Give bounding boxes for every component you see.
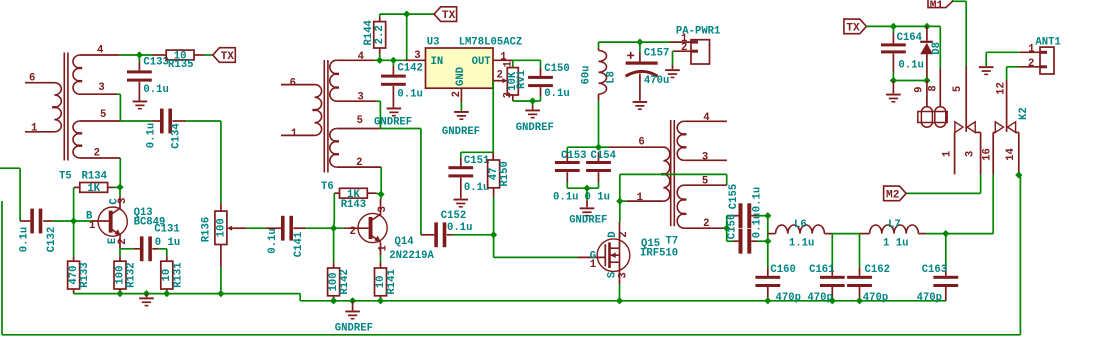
wiper arrow RV1 bbox=[493, 80, 503, 82]
node D8 bottom junction bbox=[923, 77, 930, 84]
flag TX input mid bbox=[434, 7, 457, 22]
potentiometer RV1 bbox=[507, 68, 518, 95]
svg-text:1: 1 bbox=[503, 61, 515, 67]
capacitor C155 bbox=[727, 215, 733, 217]
capacitor C131 bbox=[134, 248, 140, 250]
capacitor C132 bbox=[20, 220, 30, 222]
svg-text:1: 1 bbox=[89, 220, 95, 232]
svg-text:R142: R142 bbox=[339, 269, 351, 294]
svg-text:C134: C134 bbox=[170, 123, 182, 149]
wire T7 pin5 bbox=[684, 184, 727, 186]
svg-text:0.1u: 0.1u bbox=[146, 123, 158, 148]
svg-text:C141: C141 bbox=[293, 232, 305, 257]
svg-text:C142: C142 bbox=[397, 63, 422, 75]
node R142 rail bbox=[330, 297, 337, 304]
resistor R144 bbox=[379, 14, 381, 17]
node base junction R134/R133 bbox=[70, 217, 77, 224]
pin2 ANT1 bbox=[1019, 66, 1040, 68]
wire contact A throw3 to M2 bbox=[980, 174, 982, 193]
svg-text:C132: C132 bbox=[46, 227, 58, 252]
IC U3 LM78L05ACZ bbox=[426, 48, 494, 88]
svg-text:RV1: RV1 bbox=[516, 70, 528, 89]
capacitor C152 bbox=[421, 234, 434, 236]
svg-text:2: 2 bbox=[350, 226, 356, 238]
svg-text:T6: T6 bbox=[321, 181, 334, 193]
svg-text:1K: 1K bbox=[87, 183, 100, 195]
resistor R132 bbox=[119, 249, 121, 257]
wire center tap to pin5 bbox=[619, 174, 621, 201]
svg-text:10: 10 bbox=[161, 269, 173, 282]
svg-text:100: 100 bbox=[328, 272, 340, 291]
svg-text:8: 8 bbox=[927, 85, 939, 91]
svg-text:C133: C133 bbox=[143, 57, 168, 69]
capacitor C162 bbox=[859, 234, 861, 268]
resistor R133 bbox=[73, 221, 75, 256]
node R141 rail bbox=[377, 297, 384, 304]
svg-text:3: 3 bbox=[117, 198, 129, 204]
svg-text:470p: 470p bbox=[917, 292, 942, 304]
node R132 rail bbox=[116, 290, 123, 297]
svg-text:0.1u: 0.1u bbox=[752, 187, 764, 212]
capacitor C142 bbox=[392, 60, 394, 66]
node C160 rail bbox=[764, 297, 771, 304]
wire RV1 bottom to gnd node bbox=[512, 95, 514, 101]
capacitor C141 bbox=[266, 227, 281, 229]
svg-text:0.1u: 0.1u bbox=[143, 84, 168, 96]
capacitor C151 bbox=[460, 152, 462, 158]
node Q15 source rail bbox=[616, 297, 623, 304]
transistor Q14 2N2219A bbox=[380, 194, 382, 199]
svg-text:0.1u: 0.1u bbox=[447, 222, 472, 234]
svg-text:GNDREF: GNDREF bbox=[335, 323, 373, 335]
svg-text:TX: TX bbox=[221, 51, 235, 63]
wire bottom rail A bbox=[74, 293, 301, 295]
svg-text:C155: C155 bbox=[728, 184, 740, 209]
wire T6 pin5 to C152 bbox=[337, 128, 381, 130]
svg-text:60u: 60u bbox=[580, 65, 592, 84]
wire throw14 to bottom rail bbox=[1018, 174, 1020, 176]
node collector junction bbox=[377, 191, 384, 198]
capacitor C157 electrolytic bbox=[639, 42, 641, 52]
svg-text:R141: R141 bbox=[386, 269, 398, 294]
wire T5 pin5 to C134 bbox=[80, 120, 120, 122]
capacitor C161 bbox=[831, 234, 833, 268]
svg-text:1: 1 bbox=[31, 122, 37, 134]
flag TX output top-right bbox=[844, 19, 867, 34]
wire TX to relay coil bbox=[866, 25, 940, 27]
resistor R135 bbox=[152, 54, 166, 56]
svg-text:1: 1 bbox=[377, 245, 389, 251]
connector ANT1 bbox=[1040, 47, 1054, 74]
svg-text:R132: R132 bbox=[126, 262, 138, 287]
ground RV1/C150 GNDREF bbox=[532, 101, 534, 105]
svg-text:R131: R131 bbox=[172, 262, 184, 287]
resistor R150 bbox=[492, 152, 494, 160]
connector PA-PWR1 bbox=[691, 40, 710, 64]
ground C151 bbox=[454, 199, 469, 201]
relay K2 coil bbox=[918, 112, 947, 123]
svg-text:0.1u: 0.1u bbox=[544, 88, 569, 100]
wire TX junction down bbox=[406, 14, 408, 60]
relay contact A bbox=[955, 122, 963, 133]
wire C131 to R131 bbox=[166, 249, 168, 257]
wire Q13 emitter bbox=[119, 236, 121, 249]
capacitor C133 bbox=[138, 55, 140, 62]
wire pin2 node verticals bbox=[726, 216, 728, 242]
svg-text:GNDREF: GNDREF bbox=[569, 214, 607, 226]
wiper arrow R136 bbox=[227, 226, 232, 231]
wire T6 pin4 to U3 bbox=[337, 59, 375, 61]
node D8 junction top bbox=[923, 23, 930, 30]
node C155 junction bbox=[764, 212, 771, 219]
wire T7 pin4 stub bbox=[684, 120, 727, 122]
svg-text:2.2: 2.2 bbox=[374, 25, 386, 44]
svg-text:IN: IN bbox=[431, 56, 444, 68]
ground C133 bbox=[133, 101, 148, 103]
svg-text:ANT1: ANT1 bbox=[1035, 36, 1060, 48]
ground PA-PWR1 pin2 bbox=[665, 69, 680, 71]
svg-text:0.1u: 0.1u bbox=[397, 89, 422, 101]
svg-text:R144: R144 bbox=[363, 19, 375, 45]
svg-text:470p: 470p bbox=[863, 292, 888, 304]
svg-text:0.1u: 0.1u bbox=[553, 191, 578, 203]
svg-text:5: 5 bbox=[952, 86, 964, 92]
svg-text:M1: M1 bbox=[930, 0, 944, 12]
wire R134 left down to base bbox=[73, 187, 75, 221]
svg-text:C151: C151 bbox=[464, 155, 489, 167]
svg-text:4: 4 bbox=[703, 112, 710, 124]
transformer T6 bbox=[323, 60, 325, 173]
node throw14 junction bbox=[1015, 171, 1022, 178]
wire contact B common bbox=[1006, 80, 1008, 132]
wire input left edge bbox=[0, 167, 20, 169]
capacitor C153 bbox=[566, 147, 568, 153]
svg-text:C156: C156 bbox=[726, 214, 738, 239]
svg-text:47: 47 bbox=[488, 168, 500, 181]
resistor R141 bbox=[380, 262, 382, 268]
inductor L7 bbox=[860, 233, 870, 235]
wire T6 pin3 down bbox=[337, 100, 376, 102]
wire L6 to L7 bbox=[832, 233, 859, 235]
svg-text:L8: L8 bbox=[606, 71, 618, 84]
svg-text:100: 100 bbox=[114, 266, 126, 285]
ground U3 GNDREF bbox=[454, 111, 469, 113]
pin 1 U3 bbox=[493, 59, 512, 61]
svg-text:C164: C164 bbox=[897, 32, 923, 44]
wire L7 out to relay bbox=[946, 233, 993, 235]
wire C155-C156 vertical bbox=[767, 216, 769, 242]
svg-text:Q14: Q14 bbox=[395, 236, 415, 248]
svg-text:14: 14 bbox=[1005, 148, 1017, 161]
node Q14 base junction bbox=[330, 225, 337, 232]
node gnd junction bbox=[529, 97, 536, 104]
wire bottom rail C bbox=[2, 334, 1020, 336]
wire T7 pin3 stub bbox=[684, 159, 727, 161]
pin2 PA-PWR1 bbox=[674, 50, 691, 52]
svg-text:0 1u: 0 1u bbox=[155, 237, 180, 249]
svg-text:C160: C160 bbox=[770, 264, 795, 276]
svg-text:GNDREF: GNDREF bbox=[516, 122, 554, 134]
node C164 junction bbox=[890, 23, 897, 30]
wire M1 to contact A bbox=[953, 0, 967, 2]
svg-text:R136: R136 bbox=[200, 217, 212, 242]
resistor R131 bbox=[166, 256, 168, 261]
svg-text:C131: C131 bbox=[154, 224, 179, 236]
pin 3 U3 bbox=[404, 59, 425, 61]
wire T7 pin2 to C155/C156 bbox=[684, 227, 727, 229]
node C153/C154 junction bbox=[595, 144, 602, 151]
capacitor C134 bbox=[152, 120, 160, 122]
resistor R143 bbox=[340, 188, 368, 198]
svg-text:D8: D8 bbox=[931, 42, 943, 55]
svg-text:1: 1 bbox=[291, 128, 297, 140]
svg-text:470u: 470u bbox=[644, 75, 669, 87]
wire to C153 bbox=[567, 146, 598, 148]
wire rail A step down bbox=[299, 294, 301, 301]
ground C157 bbox=[633, 101, 648, 103]
wire T7 pin1 to drain bbox=[627, 200, 664, 202]
node C152 junction bbox=[490, 231, 497, 238]
svg-text:470: 470 bbox=[68, 266, 80, 285]
node drain junction bbox=[616, 198, 623, 205]
svg-text:R135: R135 bbox=[168, 59, 193, 71]
capacitor C164 bbox=[892, 26, 894, 33]
svg-text:GNDREF: GNDREF bbox=[374, 117, 412, 129]
svg-text:T5: T5 bbox=[59, 170, 72, 182]
svg-text:3: 3 bbox=[617, 272, 629, 278]
svg-text:10: 10 bbox=[375, 276, 387, 289]
svg-text:470p: 470p bbox=[807, 292, 832, 304]
capacitor C160 bbox=[767, 241, 769, 268]
svg-text:1.1u: 1.1u bbox=[789, 237, 814, 249]
node rail ground bbox=[143, 290, 150, 297]
node gnd junction C153/C154 bbox=[583, 185, 590, 192]
svg-text:2: 2 bbox=[117, 238, 129, 244]
wire Q14 emitter to R141 bbox=[380, 243, 382, 255]
svg-text:9: 9 bbox=[914, 87, 926, 93]
resistor R134 bbox=[74, 186, 80, 188]
flag M1 top-right bbox=[928, 0, 953, 8]
svg-text:C153: C153 bbox=[561, 150, 586, 162]
wire RV1 wiper down bbox=[492, 81, 494, 153]
svg-text:1: 1 bbox=[637, 192, 643, 204]
ground C142 GNDREF bbox=[387, 108, 402, 110]
svg-text:T7: T7 bbox=[666, 236, 679, 248]
svg-text:2: 2 bbox=[451, 91, 463, 97]
wire to coil pin 8 bbox=[939, 26, 941, 68]
svg-text:TX: TX bbox=[442, 10, 456, 22]
svg-text:2N2219A: 2N2219A bbox=[389, 250, 434, 262]
wire left vertical to bottom rail bbox=[1, 201, 3, 335]
wire bottom rail B bbox=[300, 300, 946, 302]
svg-text:C150: C150 bbox=[544, 63, 569, 75]
svg-text:6: 6 bbox=[29, 72, 35, 84]
pin 2 U3 bbox=[460, 88, 462, 102]
svg-text:12: 12 bbox=[996, 82, 1008, 95]
node R144 junction bbox=[376, 57, 383, 64]
svg-text:1: 1 bbox=[590, 259, 596, 271]
svg-text:OUT: OUT bbox=[472, 56, 492, 68]
transformer T5 bbox=[63, 53, 65, 161]
svg-text:470p: 470p bbox=[776, 292, 801, 304]
svg-text:5: 5 bbox=[357, 115, 363, 127]
svg-text:U3: U3 bbox=[427, 37, 440, 49]
node rail B ground bbox=[349, 297, 356, 304]
wire R144 top to TX bbox=[380, 13, 434, 15]
node TX junction bbox=[403, 11, 410, 18]
capacitor C150 bbox=[540, 60, 542, 68]
node T7 pin2 junction bbox=[723, 225, 730, 232]
wire L8 top to PA-PWR1 bbox=[599, 41, 671, 43]
svg-text:C161: C161 bbox=[809, 264, 834, 276]
svg-text:2: 2 bbox=[1028, 58, 1034, 70]
svg-text:LM78L05ACZ: LM78L05ACZ bbox=[459, 37, 523, 49]
svg-text:C163: C163 bbox=[922, 264, 947, 276]
transistor Q15 IRF510 bbox=[619, 201, 621, 222]
svg-text:16: 16 bbox=[982, 148, 994, 161]
node R134-collector junction bbox=[116, 184, 123, 191]
ground ANT1 pin1 bbox=[979, 66, 994, 68]
svg-text:5: 5 bbox=[100, 109, 106, 121]
svg-text:2: 2 bbox=[681, 42, 687, 54]
svg-text:1: 1 bbox=[942, 151, 954, 157]
inductor L6 bbox=[768, 233, 776, 235]
wire T7 pin6 bbox=[609, 146, 663, 148]
flag TX input top-left bbox=[213, 48, 236, 63]
ground rail A bbox=[146, 294, 148, 298]
svg-text:3: 3 bbox=[414, 50, 420, 62]
wire T5 pin2 down to R134 junction bbox=[80, 157, 120, 159]
capacitor C163 bbox=[945, 234, 947, 268]
wire T5 pin4 to junction bbox=[80, 54, 120, 56]
wire wiper to C141 bbox=[246, 227, 266, 229]
wire C153/C154 bottoms bbox=[567, 187, 598, 189]
diode D8 bbox=[926, 26, 928, 40]
svg-text:TX: TX bbox=[846, 22, 860, 34]
svg-text:3: 3 bbox=[377, 206, 389, 212]
svg-text:2: 2 bbox=[618, 231, 630, 237]
svg-text:L6: L6 bbox=[794, 219, 807, 231]
wire wiper node to C151/R150 bbox=[461, 151, 493, 153]
svg-text:C157: C157 bbox=[644, 47, 669, 59]
svg-text:0.1u: 0.1u bbox=[752, 213, 764, 238]
svg-text:K2: K2 bbox=[1018, 107, 1030, 120]
wire U3 out to RV1/C150 bbox=[512, 59, 540, 61]
svg-text:0.1u: 0.1u bbox=[898, 60, 923, 72]
svg-text:R150: R150 bbox=[499, 161, 511, 186]
wire T6 pin2 down to Q14 collector bbox=[337, 166, 381, 168]
node R136 rail bbox=[217, 290, 224, 297]
wire C164 to D8 bottom bbox=[893, 80, 927, 82]
svg-text:GND: GND bbox=[455, 67, 467, 86]
svg-text:R133: R133 bbox=[79, 262, 91, 287]
transistor Q13 BC849 bbox=[119, 187, 121, 196]
svg-text:3: 3 bbox=[98, 82, 104, 94]
node junction C133 bbox=[136, 51, 143, 58]
svg-text:M2: M2 bbox=[886, 189, 900, 201]
node C164 bottom junction bbox=[890, 77, 897, 84]
svg-text:C162: C162 bbox=[865, 264, 890, 276]
node C156 junction bbox=[764, 238, 771, 245]
wire gate from C152 node bbox=[493, 235, 495, 258]
svg-text:3: 3 bbox=[964, 151, 976, 157]
ground C153/C154 GNDREF bbox=[586, 188, 588, 200]
capacitor C154 bbox=[598, 153, 600, 161]
svg-text:GNDREF: GNDREF bbox=[442, 126, 480, 138]
inductor L8 bbox=[598, 42, 600, 48]
node C157 junction bbox=[636, 39, 643, 46]
svg-text:0.1u: 0.1u bbox=[267, 228, 279, 253]
svg-text:R134: R134 bbox=[82, 170, 108, 182]
svg-text:1: 1 bbox=[1028, 44, 1034, 56]
svg-text:R143: R143 bbox=[341, 199, 366, 211]
relay contact B bbox=[995, 122, 1003, 133]
pin1 ANT1 bbox=[1020, 51, 1040, 53]
node C163 junction bbox=[942, 230, 949, 237]
svg-text:0 1u: 0 1u bbox=[585, 191, 610, 203]
ground GNDREF rail B bbox=[352, 301, 354, 311]
svg-text:C152: C152 bbox=[441, 210, 466, 222]
svg-text:3: 3 bbox=[702, 152, 708, 164]
svg-text:1 1u: 1 1u bbox=[883, 237, 908, 249]
flag M2 bbox=[884, 186, 907, 201]
capacitor C156 bbox=[727, 240, 733, 242]
resistor R142 bbox=[333, 228, 335, 262]
transformer T7 bbox=[670, 120, 672, 226]
svg-text:IRF510: IRF510 bbox=[640, 248, 678, 260]
wire to coil pin 9 bbox=[926, 81, 928, 107]
wire C132 to Q13 base bbox=[52, 220, 91, 222]
pin1 PA-PWR1 bbox=[670, 41, 691, 43]
svg-text:0.1u: 0.1u bbox=[464, 182, 489, 194]
svg-text:0.1u: 0.1u bbox=[18, 227, 30, 252]
wire C141 to Q14 base bbox=[306, 227, 344, 229]
node C162 rail bbox=[856, 297, 863, 304]
potentiometer R136 bbox=[220, 203, 222, 211]
ground C164 bbox=[892, 81, 894, 94]
svg-text:L7: L7 bbox=[888, 219, 901, 231]
wire T5 pin3 down to pin5 bbox=[80, 93, 117, 95]
node R131 rail bbox=[163, 290, 170, 297]
svg-text:C154: C154 bbox=[591, 150, 617, 162]
node C161 rail bbox=[829, 297, 836, 304]
svg-text:6: 6 bbox=[290, 77, 296, 89]
svg-text:100: 100 bbox=[215, 218, 227, 237]
wire C134 to R136 bbox=[186, 120, 221, 122]
node C142 junction bbox=[390, 57, 397, 64]
